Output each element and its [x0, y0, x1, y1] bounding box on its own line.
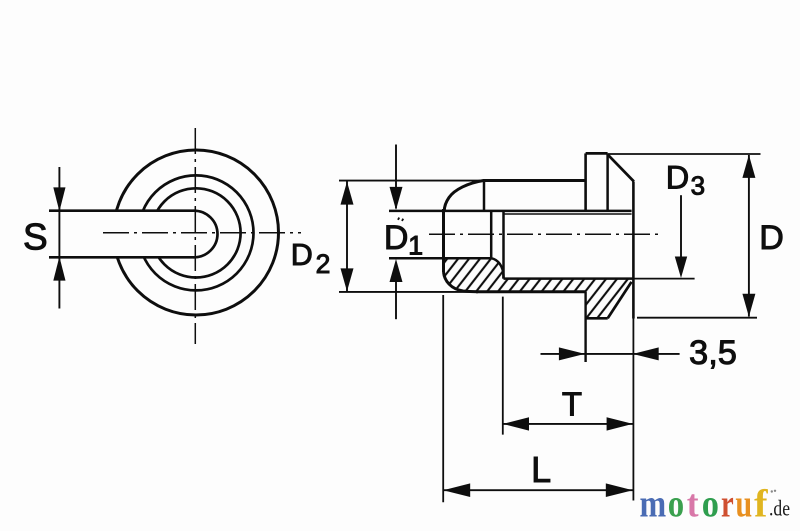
dimension L line	[443, 489, 633, 491]
section: strip top line	[504, 277, 634, 280]
front view: shaft top line	[49, 209, 194, 212]
section: blob right curve	[491, 258, 504, 278]
dimension D bottom arrow	[742, 294, 755, 317]
section: thread minor line	[504, 213, 632, 215]
section: bore step vertical 2	[502, 211, 505, 279]
svg-text:D: D	[291, 238, 313, 272]
dimension D2 line	[346, 181, 348, 292]
dimension D top arrow	[742, 155, 755, 178]
front view: horizontal centerline	[103, 232, 301, 234]
section: flange top chamfer	[608, 154, 634, 181]
section: flange left face lower + 3,5 extension	[584, 292, 586, 362]
section: D bottom extension line	[637, 317, 757, 319]
section: bore step vertical 1	[490, 211, 493, 258]
front view: shaft bottom line	[49, 256, 194, 259]
svg-text:2: 2	[316, 249, 331, 279]
dimension D1 tiny mark	[398, 218, 404, 220]
svg-text:.de: .de	[769, 496, 790, 521]
dimension T line	[503, 423, 633, 425]
dimension L left arrow	[443, 483, 470, 497]
section: dome left face	[442, 209, 445, 272]
svg-text:L: L	[531, 449, 551, 490]
front view: bore cap arc (dia D1)	[194, 211, 218, 258]
svg-text:t: t	[687, 483, 699, 526]
section: body bottom outline	[476, 290, 586, 293]
dimension D2 bottom arrow	[341, 268, 354, 291]
section: dome edge vertical	[483, 181, 486, 211]
svg-text:1: 1	[408, 231, 423, 261]
section: dome top curve	[444, 181, 483, 211]
svg-text:3: 3	[691, 171, 705, 201]
dimension D3 line	[680, 195, 682, 257]
section: D top extension line	[608, 153, 761, 155]
dimension D1 bottom arrow	[390, 259, 403, 282]
section: body top outline	[483, 179, 586, 182]
section: flange bottom chamfer	[608, 282, 632, 318]
dimension D2 top arrow	[341, 182, 354, 205]
dimension S bottom arrow	[53, 257, 65, 281]
section: bore top line	[389, 210, 632, 213]
section: flange top edge	[586, 152, 608, 155]
front view: outer circle (flange dia D)	[114, 150, 279, 315]
dimension S top arrow	[53, 187, 65, 211]
section: flange bottom edge	[586, 317, 608, 320]
logo trademark dots	[771, 490, 773, 492]
logo motoruf	[640, 483, 791, 526]
section: bore bottom line	[389, 257, 491, 260]
dimension 3,5 right arrow	[633, 347, 659, 360]
dimension L right arrow	[606, 483, 633, 497]
dimension T right arrow	[607, 417, 633, 430]
section: top extension line (D2)	[339, 180, 486, 182]
svg-text:D: D	[384, 219, 409, 257]
front view: shaft white mask	[49, 211, 218, 258]
dimension S line	[58, 167, 60, 309]
dimension D1 line upper	[395, 145, 397, 209]
svg-text:T: T	[562, 386, 582, 423]
front view: inner circle (dia D3)	[151, 188, 240, 277]
section: hatched cut area	[444, 258, 634, 318]
svg-text:S: S	[23, 217, 48, 258]
dimension T left extension	[502, 297, 504, 435]
dimension D1 line lower	[395, 280, 397, 319]
front view: vertical centerline	[194, 128, 196, 344]
dimension 3,5 line	[541, 353, 680, 355]
section: right extension line (3,5 / T / L)	[632, 319, 634, 501]
section: horizontal centerline	[429, 233, 659, 235]
section: flange chamfer edge vertical	[606, 154, 609, 211]
svg-text:D: D	[759, 219, 784, 257]
section: D3 extension line	[633, 278, 694, 280]
dimension D3 arrow	[675, 257, 687, 279]
svg-text:o: o	[668, 483, 684, 526]
svg-text:o: o	[702, 483, 719, 526]
svg-text:D: D	[666, 159, 689, 195]
section: flange right face	[632, 182, 635, 319]
dimension 3,5 left arrow	[559, 347, 585, 360]
dimension L left extension	[442, 295, 444, 502]
svg-text:f: f	[754, 483, 768, 526]
svg-text:m: m	[640, 483, 667, 526]
dimension D line	[748, 155, 750, 317]
dimension D1 top arrow	[390, 187, 403, 210]
section: bottom extension line (D2)	[339, 291, 478, 293]
dimension T left arrow	[503, 417, 529, 430]
svg-text:u: u	[735, 483, 752, 526]
section: dome bottom corner curve	[444, 272, 479, 292]
section: flange left face upper	[584, 153, 587, 211]
svg-text:r: r	[721, 483, 734, 526]
svg-text:3,5: 3,5	[689, 334, 737, 372]
front view: middle circle (body dia D2)	[139, 175, 254, 290]
